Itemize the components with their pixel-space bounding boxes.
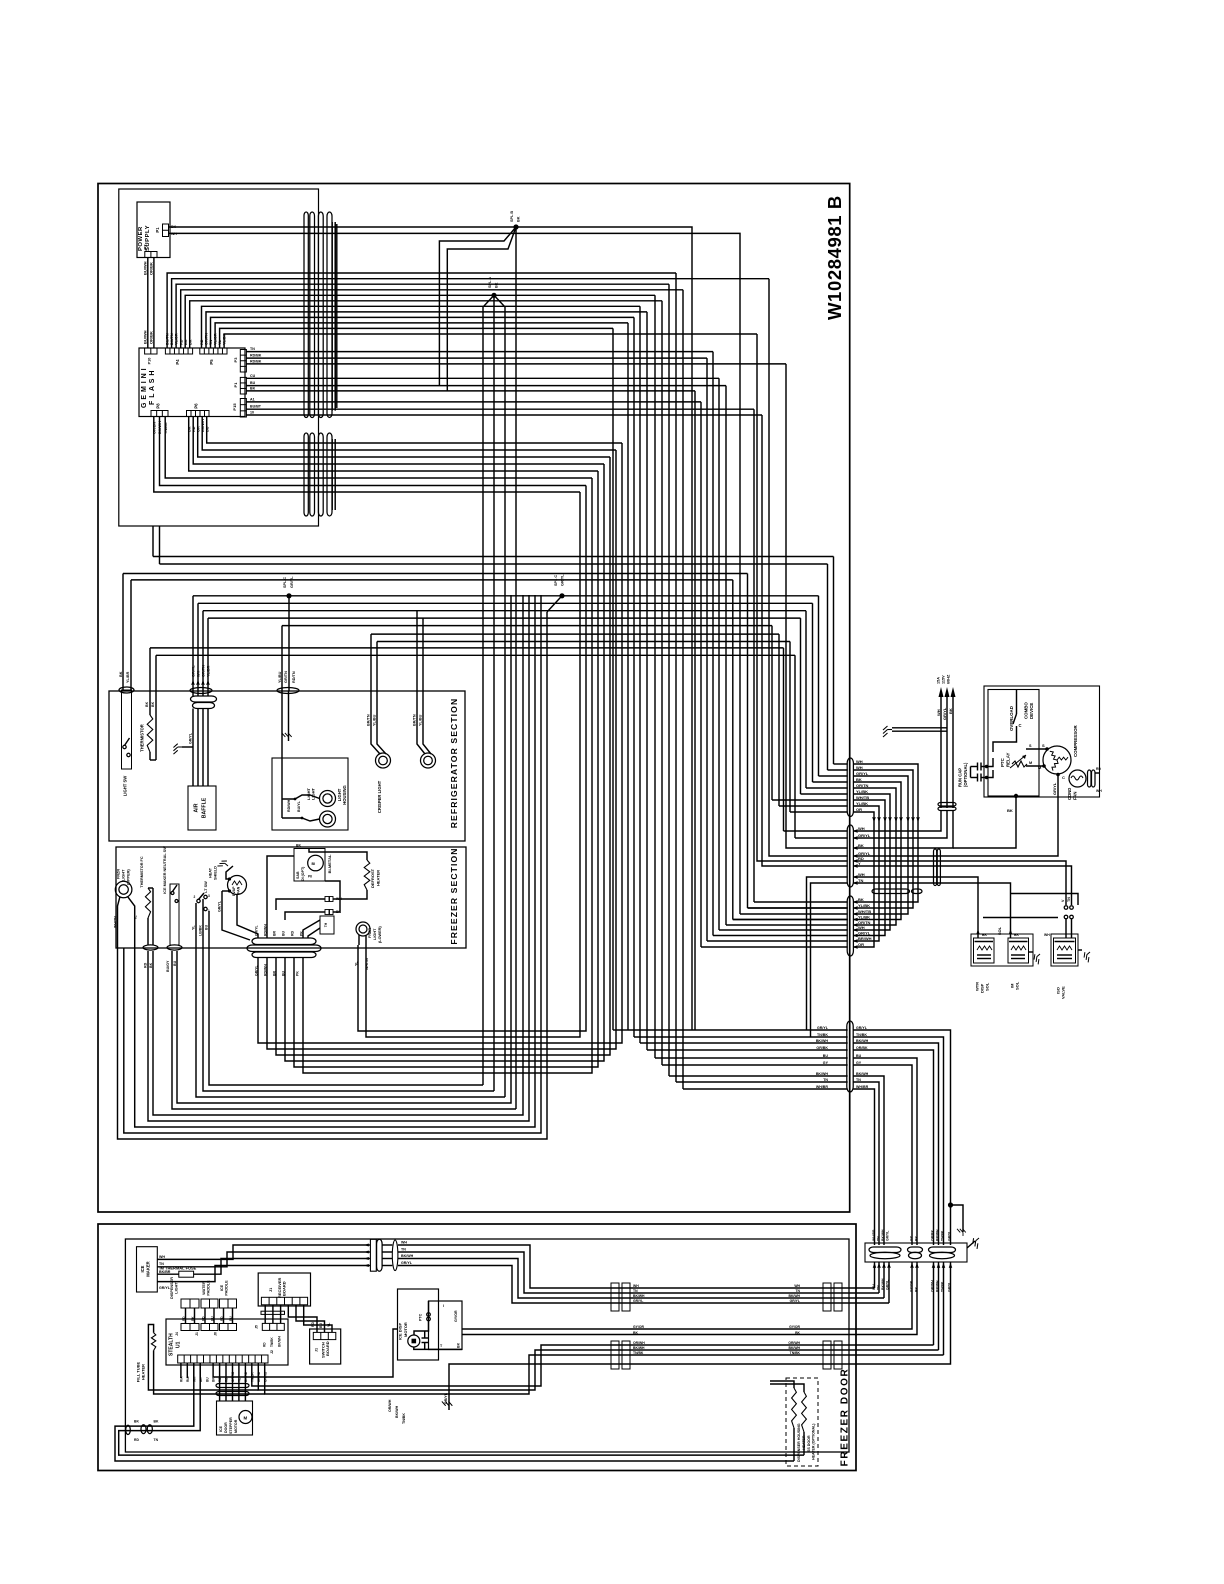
svg-text:RD: RD	[220, 1316, 224, 1321]
svg-text:BK: BK	[250, 386, 256, 390]
air baffle wires	[192, 709, 194, 787]
svg-text:SHIELD: SHIELD	[214, 866, 218, 880]
svg-text:J1: J1	[315, 1348, 319, 1352]
thermistor risers	[149, 648, 151, 691]
wire BK from PTC to stack	[953, 796, 1016, 848]
svg-text:3: 3	[208, 894, 210, 898]
svg-text:(LOWER): (LOWER)	[378, 926, 382, 943]
ground at IM solenoid	[1032, 952, 1045, 965]
door harness inline connector	[370, 1239, 376, 1271]
heater connection wires	[793, 1428, 795, 1461]
svg-text:TN/BK: TN/BK	[270, 1337, 274, 1347]
arrowheads on stack risers	[917, 817, 920, 821]
junction dot on GR/YL door wire	[948, 1202, 953, 1207]
main section border	[98, 184, 850, 1213]
svg-text:YL/BK: YL/BK	[858, 915, 870, 920]
svg-text:BR/TN: BR/TN	[413, 714, 417, 726]
freezer upper light loop wires	[118, 612, 548, 1139]
light housing box	[272, 758, 348, 830]
svg-text:PTC: PTC	[1000, 757, 1005, 767]
svg-text:J1: J1	[269, 1288, 273, 1292]
svg-text:BU: BU	[229, 1316, 233, 1321]
svg-text:COMBO: COMBO	[1024, 702, 1029, 719]
solenoid bridge wires	[983, 917, 1058, 919]
svg-text:RD: RD	[311, 1322, 315, 1327]
svg-text:BK: BK	[154, 1420, 159, 1424]
svg-text:LIGHT SW: LIGHT SW	[123, 776, 128, 797]
svg-text:BK/WH: BK/WH	[278, 1336, 282, 1347]
svg-text:PADDLE: PADDLE	[207, 1280, 211, 1296]
svg-text:YL/BR: YL/BR	[126, 671, 130, 683]
svg-text:YL: YL	[192, 925, 196, 930]
crisper light bulb 1	[376, 753, 391, 768]
svg-text:FAN: FAN	[237, 886, 241, 894]
svg-text:LB/BK: LB/BK	[199, 925, 203, 936]
svg-text:SPL C: SPL C	[283, 577, 287, 588]
svg-text:BK/WH: BK/WH	[856, 1072, 869, 1076]
compressor wires	[1026, 748, 1047, 750]
connector P3 pins (right edge)	[240, 350, 246, 373]
service ground	[883, 726, 892, 737]
svg-text:TN: TN	[401, 1248, 406, 1252]
svg-text:BU/WH: BU/WH	[143, 330, 148, 344]
wire RD to iso valve switch	[853, 861, 1066, 905]
svg-text:BU: BU	[205, 924, 209, 930]
svg-text:HEATER: HEATER	[376, 870, 381, 886]
ground at strip	[967, 1241, 975, 1248]
svg-text:I: I	[443, 1304, 444, 1308]
svg-text:WH: WH	[858, 925, 865, 930]
svg-text:M: M	[244, 1416, 248, 1421]
svg-text:C: C	[1062, 775, 1065, 780]
svg-text:M: M	[1029, 761, 1032, 765]
dispenser motor output wires	[462, 1262, 912, 1329]
svg-text:BOARD: BOARD	[282, 1281, 287, 1296]
svg-text:RD: RD	[144, 962, 148, 968]
svg-text:BU/YL: BU/YL	[297, 800, 301, 812]
multi-wire pass-through connector bundle CN-B	[304, 433, 308, 516]
svg-text:TN/BK: TN/BK	[856, 1033, 867, 1037]
svg-text:BK: BK	[914, 1287, 918, 1292]
svg-text:ICE: ICE	[219, 1425, 223, 1432]
left door inline connector wires	[115, 1363, 794, 1461]
svg-text:P1: P1	[233, 382, 238, 388]
svg-text:OR/BK: OR/BK	[856, 1046, 868, 1050]
svg-text:SOL: SOL	[1015, 981, 1020, 990]
J2 stub wires	[193, 1363, 195, 1381]
freezer door box	[125, 1239, 849, 1452]
svg-text:BK: BK	[495, 282, 499, 288]
svg-text:(OPTIONAL): (OPTIONAL)	[963, 762, 968, 787]
wire WH to water dispenser solenoid	[853, 877, 978, 938]
GEMINI top harness wires P4/P5 to right risers	[167, 273, 676, 348]
freezer center connector loop wires	[258, 443, 622, 1043]
wire P1-1 BK to splice SPL-B and riser x692	[169, 227, 693, 1030]
door harness wires to risers	[382, 1244, 392, 1246]
crisper risers to band	[370, 634, 372, 691]
svg-text:RD: RD	[1096, 767, 1101, 771]
riser x769 to stack CN-2 row 856	[769, 279, 848, 856]
svg-text:RD/WH: RD/WH	[287, 799, 291, 812]
svg-text:RD: RD	[263, 1342, 267, 1347]
svg-text:TN: TN	[1067, 897, 1071, 902]
ice maker box	[137, 1247, 158, 1292]
door connector blocks right pair B	[823, 1341, 831, 1369]
svg-text:J1: J1	[195, 1332, 199, 1336]
svg-text:TN: TN	[856, 1078, 861, 1082]
svg-text:WATER: WATER	[202, 1281, 206, 1295]
stack CN-1 wires to right risers down to CN-3	[853, 764, 918, 902]
svg-text:BK: BK	[149, 962, 153, 968]
combo device box	[988, 690, 1039, 797]
svg-text:BU: BU	[173, 960, 177, 966]
svg-text:MOTOR: MOTOR	[234, 1419, 238, 1433]
svg-text:J2: J2	[270, 1350, 274, 1354]
wire P2-2 OR/BK to GEMINI P10	[153, 258, 155, 349]
receiver board pin row	[261, 1297, 307, 1305]
freezer lower light loop wires	[358, 486, 586, 1032]
connector J1	[201, 1324, 218, 1331]
door GR/YL ground return wire	[449, 1262, 951, 1410]
svg-text:ICE MAKER NEUTRAL SW: ICE MAKER NEUTRAL SW	[163, 846, 167, 894]
connector J4	[181, 1324, 199, 1331]
ice maker harness wires	[157, 1245, 370, 1259]
freezer thermistor 2 box	[320, 916, 334, 934]
risers from below to stack CN-2 rows 877 883	[807, 877, 848, 1030]
crisper light 1 funnel wires	[371, 691, 380, 754]
svg-text:ICE: ICE	[220, 1284, 224, 1291]
strip connector right	[929, 1247, 956, 1253]
svg-text:OR/BK: OR/BK	[149, 331, 154, 344]
svg-text:GR/YL: GR/YL	[255, 964, 259, 976]
svg-text:RD/TN: RD/TN	[292, 671, 296, 683]
J2 wires to door rows C	[252, 1345, 934, 1386]
svg-text:DISPENSER HOUSING: DISPENSER HOUSING	[797, 1423, 801, 1462]
svg-text:P6: P6	[194, 403, 199, 409]
compressor motor	[1043, 746, 1071, 774]
svg-text:GR/YL: GR/YL	[885, 1280, 889, 1290]
air baffle connector	[190, 688, 212, 694]
GEMINI FLASH control board U1 box	[139, 348, 245, 417]
wire Y to iso valve switch	[853, 866, 1071, 905]
svg-text:BU: BU	[205, 1377, 209, 1382]
crisper light 2 funnel wires	[417, 691, 425, 754]
riser stubs for band wires	[152, 526, 154, 557]
inline connector bars on stack risers	[872, 889, 910, 894]
svg-text:BK: BK	[948, 708, 953, 714]
svg-text:BK: BK	[134, 1420, 139, 1424]
svg-text:LIGHT: LIGHT	[175, 1282, 179, 1294]
svg-text:HEATER (OPTIONAL): HEATER (OPTIONAL)	[812, 1423, 816, 1460]
inline plug BK	[325, 910, 329, 915]
long bottom-left loop wire BK	[124, 595, 541, 1133]
run cap wires	[987, 758, 994, 767]
top-left inner group box	[119, 189, 319, 526]
svg-text:BU/WH: BU/WH	[143, 261, 148, 275]
svg-text:J5: J5	[255, 1325, 259, 1329]
freezer thermistor loop wires	[148, 595, 529, 1121]
svg-text:WH: WH	[159, 1255, 165, 1259]
connector stack CN-3 capsule	[847, 896, 853, 956]
connector P8 pins	[151, 411, 168, 417]
svg-text:G E M I N I: G E M I N I	[141, 368, 148, 408]
svg-text:BU/GY: BU/GY	[166, 960, 170, 972]
svg-text:GR/YL: GR/YL	[218, 900, 222, 912]
inline plug WH	[325, 897, 329, 902]
svg-text:P4: P4	[175, 359, 180, 365]
svg-text:BI-METAL: BI-METAL	[327, 854, 332, 873]
svg-text:BK: BK	[982, 933, 987, 937]
svg-text:P1: P1	[155, 227, 160, 233]
svg-text:FRZR: FRZR	[117, 869, 121, 879]
svg-text:BK: BK	[145, 701, 149, 707]
svg-text:BK/WH: BK/WH	[789, 1294, 801, 1298]
riser x786 stack CN-2 row 848	[786, 364, 848, 848]
refrigerator light switch	[122, 690, 132, 769]
svg-text:BK/WH: BK/WH	[816, 1039, 829, 1043]
svg-text:WH: WH	[401, 1241, 407, 1245]
svg-text:GR/YL: GR/YL	[942, 707, 947, 720]
svg-text:BK/WH: BK/WH	[856, 1039, 869, 1043]
svg-text:PK: PK	[296, 971, 300, 976]
svg-text:W10284981 B: W10284981 B	[824, 195, 845, 320]
svg-text:BK: BK	[457, 1342, 461, 1348]
svg-text:GR/YL: GR/YL	[947, 1282, 951, 1292]
svg-text:SAB: SAB	[296, 871, 300, 879]
svg-text:BU: BU	[282, 930, 286, 936]
defrost heater wires	[309, 849, 367, 861]
svg-text:YL: YL	[327, 1323, 331, 1327]
cond fan wires	[1095, 772, 1100, 774]
svg-text:BAFFLE: BAFFLE	[202, 797, 208, 818]
svg-text:WH/TB: WH/TB	[858, 909, 871, 914]
svg-text:WH: WH	[872, 1284, 876, 1290]
door connector strip	[865, 1243, 967, 1262]
connector P1 pins 2,1	[163, 224, 169, 237]
svg-text:YL/BU: YL/BU	[419, 714, 423, 726]
svg-text:GR/YL: GR/YL	[290, 576, 294, 588]
fill tube heater wires	[148, 1325, 258, 1391]
motor feed wire	[213, 1329, 397, 1377]
ground at ISO valve	[1082, 950, 1095, 963]
ice maker switch loop wires	[172, 951, 516, 1109]
riser x757 to stack CN-2 row 861	[757, 334, 848, 861]
svg-text:BK: BK	[296, 844, 301, 848]
svg-text:GR/YL: GR/YL	[885, 1231, 889, 1241]
dispenser motor internal wires	[428, 1301, 430, 1313]
freezer multi connector	[252, 938, 316, 945]
door rows A riser wires	[874, 1262, 876, 1288]
svg-text:WH: WH	[794, 1284, 800, 1288]
svg-text:AIR: AIR	[194, 803, 200, 812]
svg-text:LIGHT: LIGHT	[122, 869, 126, 881]
svg-text:FRZR: FRZR	[368, 928, 372, 938]
svg-text:TN: TN	[823, 1078, 828, 1082]
svg-text:PK: PK	[300, 931, 304, 936]
connector stack CN-2 capsule	[847, 825, 853, 887]
svg-text:CU: CU	[250, 374, 256, 378]
STEALTH U1 dispenser control board	[166, 1319, 288, 1365]
svg-text:RD: RD	[182, 1316, 186, 1321]
svg-text:TN: TN	[633, 1289, 638, 1293]
svg-text:YL: YL	[355, 961, 359, 966]
dispenser housing heater optional dashed box	[786, 1378, 818, 1466]
svg-text:BK: BK	[858, 897, 864, 902]
door connector blocks left pair A	[611, 1283, 619, 1311]
svg-text:WH: WH	[1044, 933, 1050, 937]
svg-text:DEFROST: DEFROST	[370, 868, 375, 888]
svg-text:BK/WH: BK/WH	[816, 1072, 829, 1076]
ground on light housing GR/YL wire	[288, 691, 290, 741]
receiver to switch board wires	[288, 1305, 317, 1333]
svg-text:CRISPER LIGHT: CRISPER LIGHT	[377, 780, 382, 813]
svg-text:STEALTH: STEALTH	[169, 1333, 175, 1356]
connector P15 pins (right edge)	[240, 399, 246, 418]
freezer door section outer border	[98, 1224, 856, 1471]
svg-text:YL/BU: YL/BU	[373, 714, 377, 726]
connector P5 pins 6 5 4 3 2 1	[200, 348, 227, 354]
refrigerator light housing connector	[277, 688, 299, 694]
svg-text:BK/WH: BK/WH	[395, 1405, 399, 1418]
connector P2 pins 1,2	[145, 252, 157, 258]
svg-text:RD/BK: RD/BK	[250, 354, 262, 358]
splice SPL-C junction GR/YL	[286, 593, 291, 598]
svg-text:BK: BK	[151, 701, 155, 707]
connector P4 pins 7 5 1 8 9 4	[165, 348, 192, 354]
evap fan wires to connector	[237, 895, 258, 939]
svg-text:GR/YL: GR/YL	[856, 1026, 868, 1030]
svg-text:TN/BK: TN/BK	[817, 1033, 828, 1037]
svg-text:STEPPER: STEPPER	[229, 1417, 233, 1434]
svg-text:TH: TH	[324, 922, 328, 927]
svg-text:GR/YL: GR/YL	[817, 1026, 829, 1030]
riser x695 from P1 row	[694, 391, 696, 1030]
freezer lower light	[356, 922, 370, 936]
svg-text:GR/YL: GR/YL	[633, 1299, 643, 1303]
svg-text:THERMISTOR FC: THERMISTOR FC	[140, 856, 144, 887]
bimetal wire to connector	[267, 856, 294, 938]
svg-text:YL/BK: YL/BK	[858, 903, 870, 908]
P8 harness wires through CN-B	[165, 417, 592, 479]
svg-text:BR: BR	[273, 970, 277, 976]
REFRIGERATOR SECTION box	[109, 691, 465, 841]
ice door stepper motor	[217, 1401, 253, 1435]
svg-text:BK: BK	[517, 216, 521, 222]
svg-text:SPL A: SPL A	[488, 277, 492, 288]
svg-text:COMPRESSOR: COMPRESSOR	[1073, 724, 1078, 757]
svg-text:DI (OPT): DI (OPT)	[301, 866, 305, 881]
crisper light bulb 2	[421, 753, 436, 768]
connector P10 pins 1,2	[145, 348, 157, 354]
svg-text:S: S	[1042, 743, 1045, 748]
svg-text:SOL: SOL	[997, 926, 1002, 935]
connector P1 pins (right edge)	[240, 377, 246, 394]
bimetal defrost thermostat box	[294, 849, 325, 882]
svg-text:DEVICE: DEVICE	[1029, 703, 1034, 719]
gemini harness risers descending to door connector rows	[627, 323, 629, 1030]
svg-text:SPL B: SPL B	[510, 211, 514, 222]
wire P1-2 WH riser x740	[169, 233, 741, 914]
connector J2 pin row	[178, 1355, 268, 1363]
svg-text:15A: 15A	[937, 677, 941, 684]
svg-text:WH: WH	[936, 709, 941, 716]
dispenser receiver board	[258, 1273, 310, 1306]
svg-text:RD/WH: RD/WH	[264, 924, 268, 936]
svg-text:BU/BT: BU/BT	[250, 405, 262, 409]
svg-text:BK/WH: BK/WH	[633, 1294, 645, 1298]
svg-text:RD: RD	[291, 930, 295, 936]
wire GR/YL from compressor to stack	[853, 775, 1058, 857]
arrow marks at door connector	[366, 1244, 369, 1246]
svg-text:RD: RD	[201, 1316, 205, 1321]
evaporator fan motor EVAP FAN	[228, 876, 247, 895]
splice SPL-B branch wires	[439, 227, 516, 386]
compressor bay outline box	[984, 686, 1100, 797]
svg-text:OR/BK: OR/BK	[149, 262, 154, 275]
svg-text:TN: TN	[154, 1438, 159, 1442]
water dispenser solenoid WTR DISP SOL	[971, 934, 1033, 966]
svg-text:10: 10	[250, 411, 254, 415]
svg-text:LIGHT: LIGHT	[373, 928, 377, 940]
svg-text:TN/BK: TN/BK	[402, 1413, 406, 1424]
splice SPL-B drop wire to bottom harness	[515, 227, 517, 1109]
splice SPL-A branch wires to bottom harness	[483, 295, 494, 1085]
svg-text:BU: BU	[823, 1054, 829, 1058]
svg-text:PTC: PTC	[419, 1313, 423, 1321]
dispenser motor	[408, 1335, 420, 1347]
svg-text:GR/TN: GR/TN	[284, 671, 288, 683]
condenser fan motor	[1069, 770, 1086, 787]
svg-text:BK: BK	[119, 671, 123, 677]
svg-text:P8: P8	[156, 403, 161, 409]
svg-text:ICE: ICE	[140, 1265, 145, 1272]
connector J5	[262, 1323, 284, 1330]
svg-text:SS DOOR: SS DOOR	[807, 1435, 811, 1452]
svg-text:DISPENSER: DISPENSER	[170, 1277, 174, 1299]
svg-text:P5: P5	[209, 359, 214, 365]
svg-text:RD: RD	[134, 1438, 139, 1442]
svg-text:BR/TN: BR/TN	[367, 714, 371, 726]
riser x762 to stack CN-2 row 866	[762, 415, 848, 866]
svg-text:BK: BK	[1007, 808, 1013, 813]
svg-text:BU: BU	[856, 1054, 862, 1058]
svg-text:RD/BK: RD/BK	[250, 359, 262, 363]
svg-text:BK/WH: BK/WH	[401, 1254, 414, 1258]
svg-text:HEAT: HEAT	[209, 867, 213, 878]
freezer light switch loop wires	[196, 948, 505, 1097]
svg-text:BOARD: BOARD	[325, 1341, 330, 1356]
svg-text:WH: WH	[336, 897, 342, 901]
ground at air baffle GR/YL	[173, 744, 182, 754]
svg-text:RD/WH: RD/WH	[264, 964, 268, 976]
connector stack CN-1 capsule	[847, 758, 853, 817]
svg-text:BI: BI	[312, 862, 316, 866]
svg-text:C: C	[1019, 723, 1022, 728]
svg-text:GR/YL: GR/YL	[790, 1299, 800, 1303]
svg-text:HOUSING: HOUSING	[342, 785, 347, 805]
svg-text:U1: U1	[176, 1341, 182, 1348]
multi-wire pass-through connector bundle CN-A	[304, 212, 308, 418]
refrigerator light bulb 1	[320, 791, 336, 807]
wire TN to icemaker solenoid	[853, 883, 1010, 938]
svg-text:P10: P10	[148, 358, 152, 365]
svg-text:GY: GY	[856, 1061, 862, 1065]
light switch risers	[122, 574, 124, 692]
wire P2-1 BU/WH to GEMINI P10	[147, 258, 149, 349]
splice SPL-A junction	[491, 293, 496, 298]
svg-text:TN: TN	[876, 1285, 880, 1290]
door harness connector CN-4 capsule	[847, 1021, 853, 1092]
